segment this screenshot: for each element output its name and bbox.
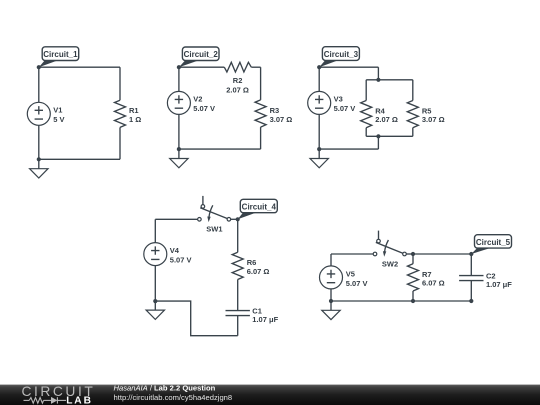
label tail Circuit_3 [319,60,339,67]
wire bottom C2 [179,148,261,150]
resistor R5 [407,101,418,128]
wire top-left C4 [155,218,197,220]
node R7 bottom [411,299,415,303]
wire V1 bottom lead [38,125,40,159]
label box Circuit_2 [182,47,219,61]
svg-text:5.07 V: 5.07 V [170,255,192,264]
wire R4 bottom lead [365,128,367,137]
svg-text:1.07 μF: 1.07 μF [252,315,278,324]
svg-text:6.07 Ω: 6.07 Ω [247,267,270,276]
svg-text:SW2: SW2 [382,259,398,268]
resistor R4 [361,101,372,128]
wire top C1 [39,66,120,68]
svg-text:R5: R5 [422,106,432,115]
wire C2 top lead [470,254,472,276]
node C2 bottom [469,299,473,303]
wire right-bottom lead R1 [119,127,121,159]
voltage source V3 [308,91,331,114]
label tail Circuit_4 [238,212,258,219]
logo diode triangle [51,397,57,404]
ground C3 [310,149,328,168]
wire right-top lead R1 [119,67,121,100]
node top bar C3 [376,78,380,82]
node bottom C1 [37,157,41,161]
svg-text:SW1: SW1 [206,225,222,234]
capacitor C2 [459,276,483,281]
wire V5 top lead [330,254,332,266]
wire R7 top lead [412,254,414,264]
footer bar [0,385,540,405]
ground C5 [322,301,340,320]
svg-text:3.07 Ω: 3.07 Ω [270,115,293,124]
wire V1 top lead [38,67,40,102]
svg-text:5 V: 5 V [53,115,64,124]
resistor R3 [255,100,266,127]
wire V5 bottom lead [330,289,332,301]
svg-text:Circuit_4: Circuit_4 [242,202,277,211]
wire top-right C2 [251,66,260,68]
wire top-left C5 [331,253,373,255]
capacitor C1 [226,311,250,316]
svg-text:R3: R3 [270,106,280,115]
label box Circuit_4 [240,199,277,212]
voltage source V2 [167,91,190,114]
label tail Circuit_1 [39,60,59,67]
node V5 bottom [329,299,333,303]
svg-text:R2: R2 [233,76,243,85]
voltage source V1 [27,102,50,125]
ground C4 [146,301,164,319]
svg-text:Circuit_2: Circuit_2 [184,50,219,59]
svg-text:R6: R6 [247,258,257,267]
node bottom C2 [177,147,181,151]
voltage source V5 [320,266,343,289]
svg-text:HasanAIA / Lab 2.2 Question: HasanAIA / Lab 2.2 Question [114,383,216,392]
svg-text:3.07 Ω: 3.07 Ω [422,115,445,124]
node A3 top-left [317,65,321,69]
svg-text:V1: V1 [53,106,62,115]
wire right lead R3 [260,67,262,100]
svg-text:5.07 V: 5.07 V [334,104,356,113]
label tail Circuit_2 [179,60,200,67]
svg-text:R4: R4 [375,106,385,115]
ground C1 [30,159,48,178]
svg-text:2.07 Ω: 2.07 Ω [226,86,249,95]
wire top-right C5 [413,253,471,255]
label box Circuit_3 [322,47,359,61]
logo circuit glyph wire [24,397,67,403]
voltage source V4 [144,243,167,266]
label box Circuit_1 [42,47,78,61]
wire switch to node C5 [406,253,413,255]
wire bottom drop C3 [377,136,379,149]
switch SW2 [373,231,406,257]
svg-text:LAB: LAB [66,396,93,405]
wire R6 to C1 [237,280,239,311]
node bottom bar C3 [376,134,380,138]
svg-text:V5: V5 [346,270,355,279]
wire R5 top lead [412,80,414,101]
wire top bar C3 [366,79,413,81]
wire bottom bar C3 [366,135,413,137]
svg-text:V3: V3 [334,95,343,104]
wire C2 bottom lead [470,281,472,301]
svg-text:Circuit_3: Circuit_3 [324,50,359,59]
wire bottom C1 [39,158,120,160]
svg-text:V2: V2 [193,95,202,104]
wire V2 top lead [178,67,180,91]
svg-text:R1: R1 [129,106,139,115]
wire bottom C4 [155,301,237,336]
wire right-bottom C2 [260,127,262,149]
wire R5 bottom lead [412,128,414,137]
wire V2 bottom lead [178,114,180,149]
svg-text:1 Ω: 1 Ω [129,115,141,124]
switch SW1 [198,196,231,222]
svg-text:http://circuitlab.com/cy5ha4ed: http://circuitlab.com/cy5ha4edzjgn8 [114,393,233,402]
node bottom C3 [317,147,321,151]
svg-text:5.07 V: 5.07 V [346,279,368,288]
wire R4 top lead [365,80,367,101]
wire C1 bottom lead [237,316,239,336]
resistor R1 [115,100,126,127]
wire V4 bottom lead [154,266,156,302]
svg-text:2.07 Ω: 2.07 Ω [375,115,398,124]
resistor R7 [408,264,419,291]
node after switch C4 [236,217,240,221]
wire top drop C3 [377,67,379,80]
resistor R6 [232,252,243,279]
svg-text:5.07 V: 5.07 V [193,104,215,113]
wire bottom C5 [331,300,471,302]
wire R7 bottom lead [412,291,414,301]
wire V3 bottom lead [318,114,320,149]
resistor R2 [224,62,251,72]
wire R6 top lead [237,219,239,252]
svg-text:1.07 μF: 1.07 μF [486,280,512,289]
node A1 top-left [37,65,41,69]
svg-text:6.07 Ω: 6.07 Ω [422,279,445,288]
svg-text:Circuit_1: Circuit_1 [43,50,78,59]
wire top C3 [319,66,378,68]
wire V3 top lead [318,67,320,91]
node A2 top-left [177,65,181,69]
node after switch C5 [411,252,415,256]
wire switch to node C4 [231,218,238,220]
node bottom C4 [153,299,157,303]
svg-text:R7: R7 [422,270,432,279]
node C2 top C5 [469,252,473,256]
svg-text:V4: V4 [170,246,180,255]
wire V4 top lead [154,219,156,242]
svg-text:Circuit_5: Circuit_5 [476,238,511,247]
label tail Circuit_5 [471,248,491,254]
ground C2 [170,149,188,168]
wire bottom C3 [319,148,378,150]
wire top-left C2 [179,66,224,68]
label box Circuit_5 [475,235,512,248]
